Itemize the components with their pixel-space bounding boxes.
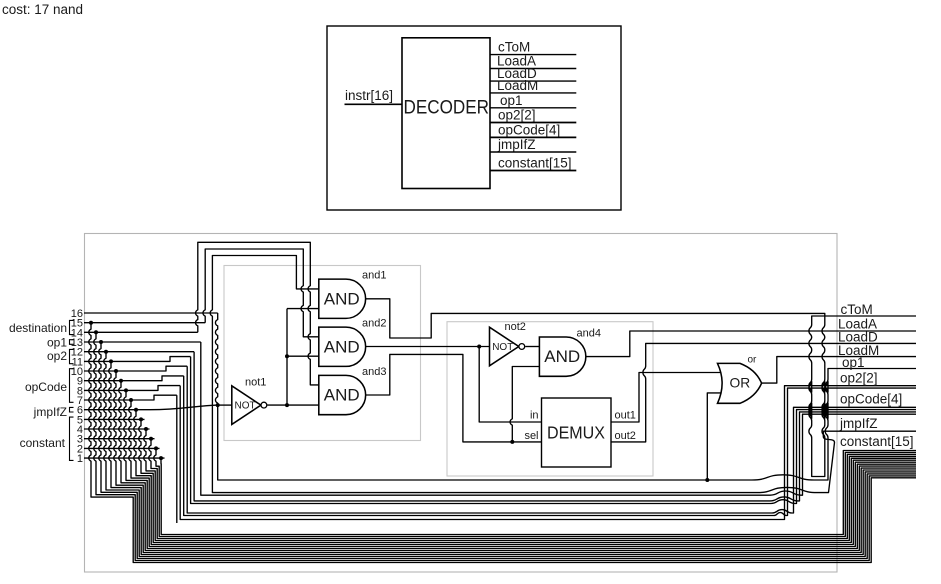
wire and1 lower input bbox=[287, 308, 319, 310]
wire bit16/not1-input net down to op1 output row bbox=[215, 313, 916, 480]
wire instr bit 7 bbox=[84, 395, 177, 400]
pin opCode[4] bbox=[490, 122, 576, 137]
svg-text:sel: sel bbox=[524, 430, 538, 442]
wire instr bit 12 bbox=[84, 351, 194, 353]
wire instr bit 3 bbox=[84, 438, 155, 440]
wire instr bit 16 bbox=[84, 312, 218, 314]
svg-text:constant[15]: constant[15] bbox=[498, 156, 572, 171]
main circuit outer boundary bbox=[85, 234, 838, 573]
wire or-gate lower input from op1 net bbox=[707, 393, 721, 480]
wire not1 input stub bbox=[218, 404, 232, 406]
wire bit14 to and3 upper input (top loop outer) bbox=[196, 242, 319, 385]
group box first stage bbox=[224, 266, 421, 441]
svg-text:NOT: NOT bbox=[492, 342, 513, 353]
svg-text:and1: and1 bbox=[362, 270, 386, 282]
and-gate and2 bbox=[319, 318, 387, 367]
junction not1 output bbox=[285, 403, 289, 407]
wire not2 output to and4 upper input bbox=[525, 346, 539, 348]
svg-text:and3: and3 bbox=[362, 366, 386, 378]
pin LoadM bbox=[490, 78, 576, 93]
wire constant bit 10 to constant bus bbox=[114, 371, 916, 553]
svg-text:1: 1 bbox=[77, 453, 83, 465]
svg-text:not1: not1 bbox=[245, 377, 266, 389]
wire not1 output riser bbox=[286, 309, 288, 406]
wire not1 output to and3 lower input bbox=[267, 404, 319, 406]
wire or output to LoadM row bbox=[761, 357, 916, 384]
svg-text:destination: destination bbox=[9, 321, 67, 335]
svg-text:op2[2]: op2[2] bbox=[840, 370, 878, 385]
svg-text:opCode: opCode bbox=[25, 380, 67, 394]
wire and1 output to cToM row bbox=[366, 299, 916, 477]
svg-text:AND: AND bbox=[324, 289, 360, 308]
wire constant bit 1 to constant bus bbox=[161, 451, 916, 535]
svg-text:in: in bbox=[530, 410, 539, 422]
svg-text:op2: op2 bbox=[47, 349, 67, 363]
pin op1 bbox=[490, 93, 576, 108]
wire instr bit 8 bbox=[84, 386, 180, 391]
svg-text:OR: OR bbox=[730, 376, 751, 391]
and-gate and1 bbox=[319, 270, 387, 319]
wire instr bit 11 bbox=[84, 357, 191, 362]
pin constant[15] bbox=[490, 156, 576, 171]
wire bit9 to op2 bus line 2 bbox=[184, 376, 916, 516]
svg-text:jmpIfZ: jmpIfZ bbox=[839, 416, 878, 431]
pin LoadD bbox=[490, 66, 576, 81]
wire bit10 to opCode bus line 1 bbox=[187, 366, 916, 513]
wire bit7 stub bbox=[176, 395, 178, 523]
wire constant bit 7 to constant bus bbox=[129, 400, 916, 547]
svg-text:opCode[4]: opCode[4] bbox=[840, 392, 902, 407]
wire instr bit 14 bbox=[84, 331, 198, 333]
svg-text:op2[2]: op2[2] bbox=[498, 108, 536, 123]
wire bit13 to opCode bus line 4 bbox=[201, 342, 916, 495]
wire demux out1 to or upper input bbox=[611, 373, 722, 423]
wire and3 output to demux sel bbox=[366, 354, 542, 442]
or-gate or bbox=[718, 354, 762, 403]
svg-text:DECODER: DECODER bbox=[404, 97, 490, 119]
wire and2 lower input bbox=[287, 355, 319, 357]
wire instr bit 6 bbox=[84, 405, 218, 410]
wire constant bit 15 to constant bus bbox=[89, 323, 916, 563]
and-gate and4 bbox=[539, 327, 601, 376]
wire and1-upper/jmpIfZ net (top loop inner, down to jmpIfZ row) bbox=[210, 256, 916, 493]
group box second stage bbox=[447, 322, 653, 476]
wire constant bit 14 to constant bus bbox=[94, 332, 916, 560]
svg-text:out1: out1 bbox=[615, 410, 636, 422]
wire bit11 to opCode bus line 2 bbox=[191, 357, 916, 504]
wire bit8 to op2 bus line 1 bbox=[180, 386, 916, 520]
svg-text:jmpIfZ: jmpIfZ bbox=[497, 137, 536, 152]
svg-text:constant: constant bbox=[20, 436, 66, 450]
node opCode label bbox=[25, 369, 74, 403]
wire instr bit 15 bbox=[84, 322, 205, 324]
svg-text:and4: and4 bbox=[577, 327, 601, 339]
wire instr bit 10 bbox=[84, 366, 187, 371]
pin op2[2] bbox=[490, 108, 576, 123]
wire and2 output to not2 bbox=[366, 346, 490, 348]
junction or input tap bbox=[705, 478, 709, 482]
svg-text:instr[16]: instr[16] bbox=[345, 88, 393, 103]
svg-text:op1: op1 bbox=[842, 355, 865, 370]
wire constant bit 8 to constant bus bbox=[124, 390, 916, 548]
wire constant bit 9 to constant bus bbox=[119, 381, 916, 551]
svg-text:jmpIfZ: jmpIfZ bbox=[33, 405, 67, 419]
wire demux out2 to LoadD row bbox=[611, 343, 916, 442]
decoder outer box bbox=[327, 26, 621, 210]
wire constant bit 13 to constant bus bbox=[99, 342, 916, 559]
svg-text:not2: not2 bbox=[505, 321, 526, 333]
svg-text:or: or bbox=[748, 354, 758, 365]
junction demux-in tap bbox=[477, 345, 481, 349]
wire demux in feed bbox=[479, 347, 541, 423]
svg-text:AND: AND bbox=[324, 386, 360, 405]
wire constant bit 5 to constant bus bbox=[139, 419, 916, 542]
wire constant bit 4 to constant bus bbox=[144, 429, 916, 541]
svg-text:op1: op1 bbox=[47, 336, 67, 350]
input pin numbers bbox=[71, 308, 83, 465]
node destination label bbox=[9, 320, 74, 335]
pin LoadA bbox=[490, 54, 576, 69]
wire instr bit 1 bbox=[84, 457, 165, 459]
wire instr bit 5 bbox=[84, 418, 145, 420]
junction and2 lower tap bbox=[285, 354, 289, 358]
not-gate not2 bbox=[490, 321, 526, 366]
wire bit12 to opCode bus line 3 bbox=[194, 352, 916, 501]
junction not1 input bbox=[216, 403, 220, 407]
wire instr bit 4 bbox=[84, 428, 150, 430]
svg-text:DEMUX: DEMUX bbox=[547, 423, 605, 443]
junction and4-lower tap on sel bbox=[510, 440, 514, 444]
svg-text:cToM: cToM bbox=[841, 302, 873, 317]
wire constant bit 11 to constant bus bbox=[109, 361, 916, 554]
wire bit15 to and2 upper input (top loop middle) bbox=[203, 249, 319, 337]
decoder U1 bbox=[402, 38, 490, 189]
svg-text:constant[15]: constant[15] bbox=[840, 434, 914, 449]
wire constant bit 3 to constant bus bbox=[149, 439, 916, 539]
svg-text:cost: 17 nand: cost: 17 nand bbox=[2, 2, 83, 17]
svg-text:LoadM: LoadM bbox=[497, 78, 538, 93]
pin jmpIfZ bbox=[490, 137, 576, 152]
wire instr bit 9 bbox=[84, 376, 184, 381]
wire constant bit 12 to constant bus bbox=[104, 352, 916, 557]
not-gate not1 bbox=[232, 377, 267, 425]
demux DEMUX bbox=[524, 398, 635, 467]
svg-text:opCode[4]: opCode[4] bbox=[498, 122, 560, 137]
wire and4 lower input from sel net bbox=[510, 367, 539, 442]
pin cToM bbox=[490, 40, 576, 55]
pin instr[16] bbox=[345, 88, 403, 104]
svg-text:AND: AND bbox=[324, 337, 360, 356]
svg-text:op1: op1 bbox=[500, 93, 523, 108]
node op2 label bbox=[47, 349, 74, 364]
wire constant bit 2 to constant bus bbox=[154, 448, 916, 536]
and-gate and3 bbox=[319, 366, 387, 415]
node jmpIfZ label bbox=[33, 405, 74, 419]
wire and4 output to LoadA row bbox=[586, 331, 916, 357]
node constant label bbox=[20, 417, 74, 460]
wire instr bit 13 bbox=[84, 341, 201, 343]
wire constant bit 6 to constant bus bbox=[134, 410, 916, 545]
svg-text:out2: out2 bbox=[615, 430, 636, 442]
svg-text:and2: and2 bbox=[362, 318, 386, 330]
svg-text:AND: AND bbox=[544, 347, 580, 366]
node op1 label bbox=[47, 336, 74, 350]
svg-text:NOT: NOT bbox=[235, 401, 256, 412]
wire instr bit 2 bbox=[84, 447, 160, 449]
svg-text:cToM: cToM bbox=[498, 40, 530, 55]
